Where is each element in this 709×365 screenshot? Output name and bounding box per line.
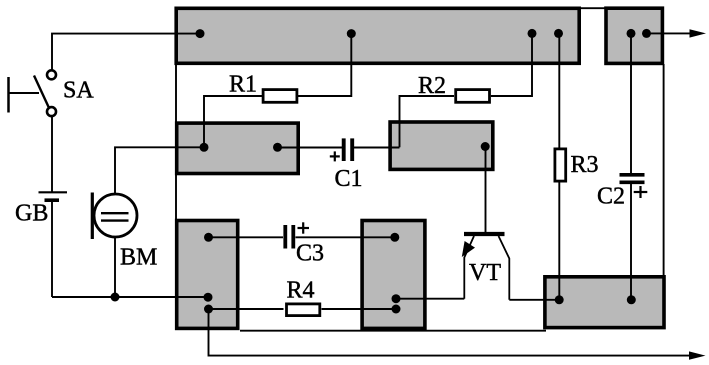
wire R3 bottom leg bbox=[558, 183, 560, 300]
svg-text:R1: R1 bbox=[229, 72, 257, 98]
wire SA to block A bbox=[52, 34, 200, 70]
switch SA fixed bracket bbox=[9, 77, 40, 113]
resistor R3 bbox=[555, 149, 566, 181]
svg-text:VT: VT bbox=[469, 260, 501, 286]
battery GB positive plate bbox=[39, 191, 68, 193]
battery GB negative plate bbox=[45, 198, 60, 202]
wire R1 left leg bbox=[204, 96, 262, 147]
transistor VT base bar bbox=[464, 232, 505, 236]
wire C3 right leg bbox=[296, 236, 396, 238]
junction block F pin 3 bbox=[392, 305, 401, 314]
switch SA lever bbox=[34, 76, 49, 108]
microphone BM plates bbox=[101, 213, 129, 220]
switch SA upper contact bbox=[47, 70, 56, 79]
wire R3 top leg bbox=[558, 33, 560, 147]
wire BM down to bottom rail bbox=[114, 237, 116, 297]
node block B (mid left board) bbox=[177, 123, 299, 173]
junction block A pin 3 bbox=[528, 29, 537, 38]
resistor R2 bbox=[456, 90, 490, 103]
capacitor C1 bbox=[344, 138, 353, 161]
junction block F pin 2 bbox=[392, 294, 401, 303]
junction BM bottom bbox=[111, 293, 120, 302]
wire output arrow bottom bbox=[209, 309, 706, 360]
switch SA lower contact bbox=[47, 107, 56, 116]
wire R2 left leg bbox=[400, 96, 455, 147]
junction block A pin 4 bbox=[554, 29, 563, 38]
wire SA to GB bbox=[51, 116, 53, 192]
junction block H pin 2 bbox=[642, 29, 651, 38]
svg-text:C2: C2 bbox=[597, 184, 625, 210]
wire VT base bbox=[485, 147, 487, 233]
wire BM up to block B bbox=[115, 147, 205, 194]
microphone BM body bbox=[94, 194, 137, 237]
node block F (bottom middle board) bbox=[362, 221, 425, 329]
junction block G pin 1 bbox=[555, 295, 564, 304]
wire R4 left leg bbox=[209, 308, 284, 310]
resistor R4 bbox=[287, 304, 320, 316]
wire bottom rail GB to block E bbox=[52, 296, 209, 298]
wire R4 right leg bbox=[322, 308, 397, 310]
label C1 plus bbox=[330, 151, 340, 161]
node block G (bottom right board) bbox=[545, 277, 664, 328]
wire C3 left leg bbox=[209, 236, 284, 238]
wire output arrow top bbox=[647, 29, 707, 37]
svg-text:C1: C1 bbox=[335, 166, 363, 192]
wire emitter to block F bbox=[396, 298, 464, 300]
wire C1 to block C bbox=[354, 147, 400, 149]
svg-text:R3: R3 bbox=[571, 152, 599, 178]
wire block H to block G right bus bbox=[663, 64, 665, 276]
junction block H pin 1 bbox=[627, 29, 636, 38]
wire C2 bottom leg bbox=[630, 184, 632, 300]
wire left bus joining block A, block B, block E bbox=[175, 62, 177, 222]
wire C2 top leg bbox=[630, 33, 632, 173]
wire GB down to bottom rail bbox=[51, 201, 53, 297]
junction block B pin 1 bbox=[200, 143, 209, 152]
wire R1 right leg bbox=[298, 34, 351, 96]
junction block A pin 1 bbox=[196, 29, 205, 38]
wire top connector between block A and block H bbox=[578, 7, 607, 9]
svg-text:R4: R4 bbox=[287, 278, 315, 304]
svg-text:GB: GB bbox=[15, 201, 48, 227]
junction block F pin 1 bbox=[390, 233, 399, 242]
wire bottom connector block F to block G bbox=[240, 330, 546, 332]
junction block E pin 3 bbox=[204, 305, 213, 314]
wire collector to block G bbox=[509, 299, 559, 301]
node block H (top right output board) bbox=[606, 8, 662, 63]
junction block B pin 2 bbox=[273, 143, 282, 152]
svg-text:R2: R2 bbox=[418, 73, 446, 99]
label C2 plus bbox=[634, 186, 648, 198]
wire block B to C1 bbox=[278, 147, 343, 149]
junction block E pin 1 bbox=[204, 233, 213, 242]
transistor VT collector bbox=[499, 236, 510, 300]
junction block C pin 1 bbox=[481, 142, 490, 151]
junction block E pin 2 bbox=[204, 293, 213, 302]
wire R2 right leg bbox=[491, 34, 532, 96]
svg-text:BM: BM bbox=[120, 245, 157, 271]
junction block A pin 2 bbox=[347, 29, 356, 38]
svg-text:SA: SA bbox=[63, 78, 94, 104]
capacitor C3 bbox=[285, 225, 293, 249]
microphone BM electret bar bbox=[91, 193, 94, 240]
capacitor C2 bbox=[620, 175, 645, 183]
node block E (bottom left board) bbox=[177, 221, 238, 329]
node block A (top bus board) bbox=[176, 8, 579, 63]
svg-text:C3: C3 bbox=[296, 241, 324, 267]
label C3 plus bbox=[298, 222, 310, 233]
transistor VT emitter with arrow bbox=[462, 236, 475, 299]
resistor R1 bbox=[263, 90, 297, 103]
junction block G pin 2 bbox=[627, 295, 636, 304]
node block C (mid right board) bbox=[390, 122, 493, 169]
